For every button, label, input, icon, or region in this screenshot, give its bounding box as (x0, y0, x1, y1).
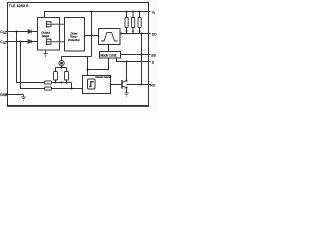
junction driver-filter wire (91, 35, 93, 37)
frame bottom thick border (7, 105, 149, 107)
wire mode control bottom stub (88, 58, 109, 70)
reset generator box (83, 76, 111, 94)
svg-text:CQ1: CQ1 (0, 30, 7, 35)
resistor R4 vertical (65, 72, 69, 81)
svg-text:SO: SO (152, 32, 157, 36)
junction Q3 collector (126, 80, 128, 82)
junction Q3 emitter (126, 87, 128, 89)
trapezoid waveform (101, 32, 118, 41)
wire current source to center tap (62, 56, 92, 58)
wire driver box to filter box (85, 35, 99, 37)
svg-text:Inh: Inh (152, 53, 157, 57)
wire emitter to ground (126, 88, 128, 93)
svg-text:RO: RO (150, 83, 155, 87)
wire rail down to circle elbow (91, 12, 93, 57)
wire SO to RO vertical (141, 34, 143, 85)
transistor T2 (47, 38, 54, 45)
junction bus1 center (61, 82, 63, 84)
wire reset generator feed (87, 57, 89, 76)
wire collector up to D line (126, 62, 128, 81)
diode D2 (28, 40, 32, 44)
bus line 1 (52, 82, 72, 84)
bus line 2 (52, 88, 83, 90)
junction rail / center tap (91, 11, 93, 13)
wire vertical sense line 1 (17, 32, 45, 83)
ground below output stage (43, 50, 47, 57)
resistor R6 (132, 18, 135, 28)
resistor R5 top right (125, 18, 128, 28)
top rail from output stage (45, 12, 151, 18)
diode D1 (28, 30, 32, 34)
junction on Q2 wire (20, 41, 22, 43)
svg-text:Protection: Protection (68, 38, 80, 42)
resistor R7 (138, 18, 141, 28)
arrow R5 to SO (125, 31, 127, 34)
ground symbol GND (21, 95, 26, 101)
wire diode D1 to output stage (32, 31, 38, 33)
svg-text:VI: VI (152, 10, 155, 15)
junction D line (126, 61, 128, 63)
junction RO line (141, 84, 143, 86)
junction bus1 R3 (55, 82, 57, 84)
svg-text:Mode Contr.: Mode Contr. (100, 54, 117, 58)
junction rail / R7 (139, 11, 141, 13)
junction rail / R5 (126, 11, 128, 13)
mode control box (100, 52, 121, 59)
transistor Q3 base bar (121, 80, 123, 89)
svg-text:Stage: Stage (42, 34, 50, 38)
arrow R7 to SO (138, 31, 140, 34)
driver / temp protection box (65, 18, 85, 52)
junction SO line right (141, 33, 143, 35)
reset icon (88, 79, 96, 89)
svg-text:Reset Gener.: Reset Gener. (96, 75, 113, 79)
node line resistor tops (56, 67, 67, 69)
junction bus2 (71, 88, 73, 90)
junction current source node (61, 67, 63, 69)
wire pin CQ2 left lower (6, 41, 29, 43)
resistor R2 horizontal (45, 87, 52, 90)
junction Inh line (141, 54, 143, 56)
svg-text:CQ2: CQ2 (0, 40, 7, 45)
arrow R6 to SO (132, 31, 134, 34)
labels (0, 4, 157, 97)
junction rail / R6 (132, 11, 134, 13)
wire circle top (61, 57, 63, 61)
pin GND wire (6, 94, 24, 96)
frame (8, 3, 149, 106)
wire pin CQ1 left top (6, 31, 29, 33)
vertical joining buses (71, 83, 73, 89)
ground below transistor (124, 93, 128, 96)
resistor R1 horizontal (45, 81, 52, 84)
junction reset feed (87, 69, 89, 71)
current source I1 (59, 61, 64, 66)
wire reset box to transistor base (111, 84, 122, 86)
transistor T1 (47, 21, 54, 28)
pin Inh wire (121, 54, 151, 56)
svg-text:D: D (152, 60, 155, 64)
svg-text:TLE 4263 S: TLE 4263 S (9, 4, 30, 8)
wire diode D2 to output stage (32, 41, 38, 43)
transistor Q3 collector emitter strokes (122, 81, 127, 88)
junction bus1 R4 (66, 82, 68, 84)
wire circle bottom to node (61, 66, 63, 68)
wire vertical sense line 2 (21, 42, 45, 89)
output stage box (38, 18, 60, 51)
pin D wire (117, 58, 151, 62)
filter box (99, 29, 121, 45)
wire output stage to driver box lower (54, 41, 65, 43)
resistor R3 vertical (54, 72, 58, 81)
wire output stage to driver box upper (54, 23, 65, 25)
pin RO wire (127, 84, 151, 86)
wire filter to mode control (108, 45, 110, 52)
sense line SO (120, 33, 151, 35)
svg-text:GND: GND (0, 93, 8, 97)
junction SO line left (121, 33, 123, 35)
junction on Q1 wire (16, 31, 18, 33)
